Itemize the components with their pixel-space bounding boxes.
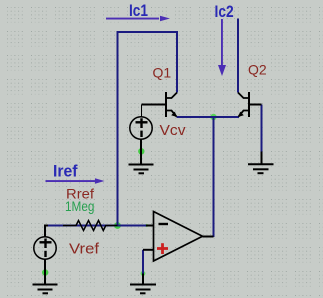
resistor Rref 1Meg — [63, 221, 118, 231]
ground below op-amp + input — [130, 274, 156, 294]
junction tick: op-amp inverting pin — [145, 224, 148, 227]
op-amp minus sign — [159, 223, 169, 225]
svg-text:Iref: Iref — [53, 161, 78, 180]
transistor Q2 (mirrored) — [238, 92, 262, 117]
junction dot: Vref to ground — [42, 269, 48, 275]
current arrow Ic1 — [106, 16, 170, 22]
svg-text:Ic2: Ic2 — [215, 2, 234, 21]
svg-text:Q2: Q2 — [248, 62, 267, 78]
svg-text:Vcv: Vcv — [160, 122, 187, 139]
voltage source Vcv — [130, 105, 152, 165]
svg-text:Q1: Q1 — [153, 65, 172, 81]
current arrow Iref — [46, 178, 105, 184]
voltage source Vref — [34, 226, 56, 285]
current arrow Ic2 — [218, 19, 226, 76]
Q2 emitter arrowhead — [238, 112, 244, 117]
op-amp U1 — [143, 212, 214, 262]
junction node A dot (Rref / loop / op-amp input) — [114, 222, 121, 229]
svg-text:1Meg: 1Meg — [65, 199, 95, 214]
wire: Q2 collector riser (Ic2) — [237, 19, 239, 93]
wire: Vref/Rref node row to op-amp inverting input — [45, 225, 148, 227]
Q1 emitter arrowhead — [171, 112, 177, 117]
junction dot: Vcv to ground — [138, 148, 144, 154]
svg-text:Vref: Vref — [69, 240, 100, 257]
junction dot: op-amp + wire to ground — [141, 271, 146, 276]
ground below Vref — [33, 285, 58, 294]
svg-text:Ic1: Ic1 — [129, 1, 148, 20]
wire: common emitter rail — [177, 116, 240, 118]
op-amp plus sign (red) — [157, 243, 168, 254]
ground below Vcv — [129, 165, 154, 174]
wire: Ic1 measurement loop from node A up over to Q1 collector — [118, 32, 178, 226]
wire: Q2 base drop to ground — [261, 105, 263, 153]
junction dot: emitter rail / output riser — [210, 114, 216, 120]
transistor Q1 — [142, 92, 178, 117]
wire: op-amp non-inverting input drop to ground — [142, 250, 144, 274]
wire: op-amp output riser to emitter rail — [213, 117, 215, 237]
ground below Q2 base — [248, 152, 274, 174]
